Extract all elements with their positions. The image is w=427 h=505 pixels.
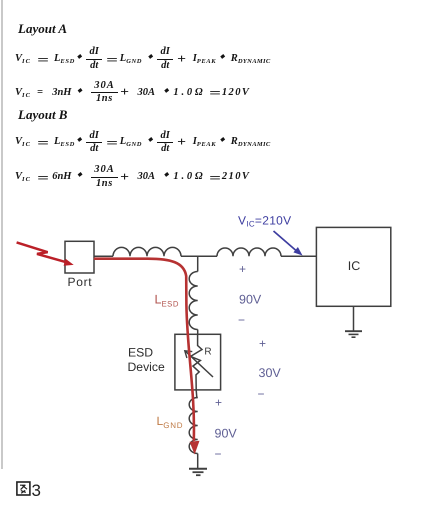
svg-text:LGND: LGND (157, 414, 184, 430)
svg-text:−: − (258, 387, 265, 401)
svg-text:+: + (259, 337, 266, 351)
svg-text:IC: IC (348, 259, 361, 273)
svg-text:VIC=210V: VIC=210V (238, 214, 291, 229)
svg-text:R: R (204, 347, 211, 358)
svg-text:+: + (239, 262, 246, 276)
svg-text:−: − (215, 447, 222, 461)
svg-text:−: − (238, 313, 245, 327)
svg-text:90V: 90V (239, 293, 262, 307)
svg-text:LESD: LESD (155, 293, 180, 309)
svg-text:30V: 30V (259, 366, 282, 380)
svg-text:+: + (215, 396, 222, 410)
svg-text:90V: 90V (215, 427, 238, 441)
svg-text:Port: Port (68, 275, 93, 289)
svg-text:ESD: ESD (128, 346, 153, 360)
svg-text:Device: Device (128, 360, 165, 374)
